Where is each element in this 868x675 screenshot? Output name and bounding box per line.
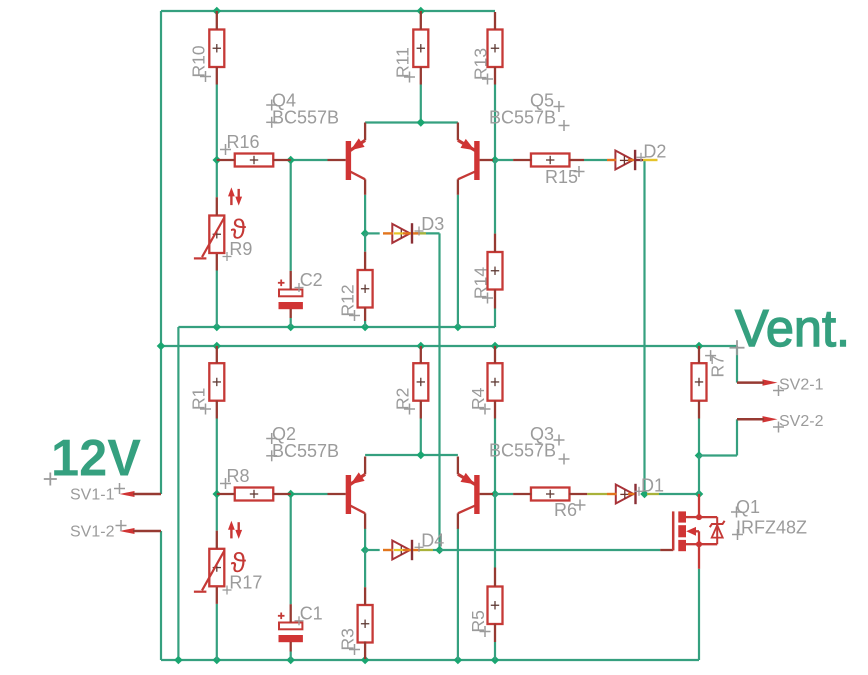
wire +12V left vertical to SV1-1 — [160, 11, 162, 494]
wire R9 to GND — [216, 271, 218, 328]
wire emitter rail (upper) — [365, 121, 458, 123]
wire node down to R5 — [494, 494, 496, 568]
wire D4 cathode to junction — [433, 549, 440, 551]
svg-text:D3: D3 — [421, 214, 444, 234]
wire GND from SV1-2 — [160, 531, 162, 660]
junction D3/D4 outputs — [435, 546, 444, 555]
wire Q4 collector down — [364, 195, 366, 234]
wire R12 to GND — [364, 321, 366, 327]
transistor Q3 — [458, 424, 570, 529]
wire R10 to base row — [216, 85, 218, 161]
junction +12V/R11 — [417, 7, 426, 16]
svg-text:R16: R16 — [227, 132, 260, 152]
capacitor C1 — [278, 603, 323, 651]
resistor R7 — [692, 346, 728, 419]
svg-text:IRFZ48Z: IRFZ48Z — [736, 518, 807, 538]
junction GND/R5 — [491, 656, 500, 665]
svg-text:SV1-2: SV1-2 — [70, 524, 115, 541]
wire GND bottom rail — [161, 659, 699, 661]
transistor Q1 — [660, 494, 807, 569]
resistor R5 — [468, 568, 503, 643]
svg-text:BC557B: BC557B — [272, 108, 339, 128]
junction +12V/R1 — [213, 342, 222, 351]
svg-text:Q1: Q1 — [736, 497, 760, 517]
junction Q2 collector/D4/R3 — [361, 546, 370, 555]
diode D4 — [383, 530, 444, 560]
junction R13/Q5 base/R15/R14 — [491, 156, 500, 165]
wire node to R12 — [364, 233, 366, 251]
wire R15 to D2 anode — [584, 159, 607, 161]
wire R5 to GND — [494, 642, 496, 660]
thermistor R17 — [194, 521, 263, 604]
junction GND/C1 — [286, 656, 295, 665]
junction GND/Q3 collector — [454, 656, 463, 665]
junction R4/Q3 base/R6/R5 — [491, 490, 500, 499]
resistor R11 — [393, 11, 429, 85]
junction drain node — [695, 490, 704, 499]
wire node to D3 anode — [365, 232, 380, 234]
wire fan node to SV2-2 drop — [699, 454, 737, 456]
wire node to C1 — [290, 494, 292, 604]
wire node to C2 — [290, 160, 292, 271]
svg-text:BC557B: BC557B — [272, 441, 339, 461]
wire Q2 collector down — [364, 528, 366, 550]
capacitor C2 — [278, 270, 323, 318]
diode D3 — [383, 214, 444, 244]
wire base row to R9 — [216, 160, 218, 197]
resistor R2 — [393, 346, 429, 419]
resistor R15 — [513, 154, 584, 188]
resistor R16 — [217, 132, 291, 167]
junction +12V/R2 — [417, 342, 426, 351]
wire Q3 collector to GND — [457, 528, 459, 660]
transistor Q2 — [266, 424, 365, 529]
wire GND rail (upper section) — [178, 326, 495, 328]
net label Vent. — [730, 300, 851, 358]
wire node to R6 — [495, 493, 513, 495]
wire base row to R17 — [216, 494, 218, 531]
resistor R12 — [338, 252, 373, 321]
wire GND link vertical — [177, 327, 179, 660]
junction R1/R8/R17 — [213, 490, 222, 499]
wire R17 to GND — [216, 604, 218, 660]
junction GND/C2 — [286, 323, 295, 332]
wire R4 down to Q3 base node — [494, 419, 496, 495]
resistor R3 — [338, 587, 373, 659]
transistor Q4 — [266, 91, 365, 195]
svg-text:BC557B: BC557B — [489, 441, 556, 461]
connector pin SV2-1 — [737, 377, 824, 397]
svg-text:D4: D4 — [421, 530, 444, 550]
connector pin SV1-1 — [70, 483, 161, 504]
wire gate net to Q1 — [440, 549, 661, 551]
wire node down to R3 — [364, 550, 366, 587]
resistor R1 — [189, 346, 225, 419]
wire node to D4 anode — [365, 549, 380, 551]
wire D2 output down to D1 node — [643, 160, 645, 494]
svg-text:Vent.: Vent. — [735, 300, 850, 358]
junction D1 cathode — [640, 490, 649, 499]
junction +12V/R10 — [213, 7, 222, 16]
wire R1 to base row — [216, 419, 218, 495]
svg-text:D1: D1 — [641, 476, 664, 496]
resistor R13 — [471, 12, 503, 85]
wire R2 to emitter rail — [420, 419, 422, 456]
wire R7 to fan node — [698, 419, 700, 456]
diode D2 — [607, 142, 666, 171]
wire D1 node to Q1 drain — [659, 493, 699, 495]
junction GND/R17 — [213, 656, 222, 665]
transistor Q5 — [458, 91, 570, 195]
junction R7/SV2-2/drain — [695, 451, 704, 460]
svg-text:R15: R15 — [545, 167, 578, 187]
svg-text:SV1-1: SV1-1 — [70, 487, 115, 504]
svg-text:R17: R17 — [229, 573, 262, 593]
resistor R14 — [471, 234, 503, 309]
resistor R6 — [513, 488, 587, 521]
svg-text:D2: D2 — [643, 142, 666, 162]
wire drop to SV2-2 — [736, 419, 738, 455]
svg-text:BC557B: BC557B — [489, 108, 556, 128]
net label 12V — [44, 430, 142, 488]
junction R16/C2 node — [286, 156, 295, 165]
wire D3 output down to D4 node — [438, 233, 440, 550]
wire node to R15 — [495, 159, 513, 161]
wire R8 to Q2 base — [291, 493, 328, 495]
junction GND/R3 — [361, 656, 370, 665]
wire R14 to GND rail end — [494, 309, 496, 328]
wire +12V lower rail — [161, 345, 737, 347]
resistor R10 — [189, 11, 225, 85]
wire R16 to Q4 base — [291, 159, 328, 161]
wire R11 to emitter rail — [420, 85, 422, 123]
svg-text:R6: R6 — [554, 500, 577, 520]
wire R13 down to Q5 base node — [494, 85, 496, 161]
wire D3 cathode to corner — [415, 232, 440, 234]
resistor R4 — [468, 346, 503, 419]
connector pin SV2-2 — [737, 413, 824, 433]
svg-text:12V: 12V — [51, 430, 141, 488]
junction +12V/R4 — [491, 342, 500, 351]
junction R10/R16/R9 — [213, 156, 222, 165]
wire fan node down to drain — [698, 456, 700, 495]
connector pin SV1-2 — [70, 520, 161, 541]
junction GND/Q5 collector — [454, 323, 463, 332]
resistor R8 — [217, 466, 291, 501]
junction R2/emitters — [417, 451, 426, 460]
wire emitter rail (lower) — [365, 454, 458, 456]
junction +12V rails — [157, 342, 166, 351]
junction GND link — [174, 656, 183, 665]
junction +12V/R7 — [695, 342, 704, 351]
thermistor R9 — [194, 187, 253, 270]
junction R8/C1 node — [286, 490, 295, 499]
wire C1 to GND — [290, 652, 292, 661]
wire C2 to GND — [290, 318, 292, 327]
diode D1 — [587, 476, 664, 505]
wire +12V drop to SV2-1 — [736, 346, 738, 383]
junction GND/R9 — [213, 323, 222, 332]
svg-text:R9: R9 — [229, 239, 252, 259]
svg-text:SV2-1: SV2-1 — [779, 377, 824, 394]
wire node down to R14 — [494, 160, 496, 234]
wire Q1 source to GND — [698, 569, 700, 660]
wire +12V top rail — [161, 10, 495, 12]
junction R11/emitters — [417, 118, 426, 127]
wire Q5 collector to GND — [457, 195, 459, 327]
junction GND/R12 — [361, 323, 370, 332]
svg-text:SV2-2: SV2-2 — [779, 413, 824, 430]
junction Q4 collector/D3/R12 — [361, 229, 370, 238]
